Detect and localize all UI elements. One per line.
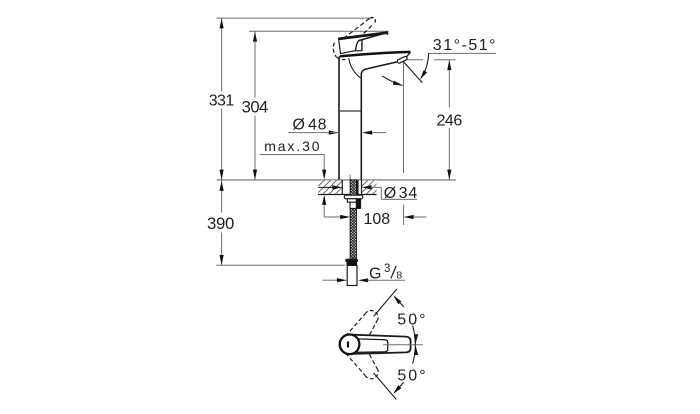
arrow 31-51 leader (418, 70, 427, 81)
dashed lever -50 cap (365, 370, 378, 379)
dashed lever -50 left edge (345, 353, 365, 375)
svg-text:246: 246 (436, 113, 462, 130)
G3/8 connector tube (347, 265, 357, 285)
outlet level line right segment (246 top tick) (434, 59, 456, 61)
dashed raised lever bottom edge (354, 24, 374, 44)
arrow 50 arc upper (413, 334, 418, 344)
deck hole right edge (361, 180, 363, 195)
arrow 331 top (220, 18, 224, 28)
arrow 331 bottom (220, 170, 224, 180)
G3/8 dim right arrow (358, 278, 368, 282)
washer step (347, 199, 360, 202)
outlet extension line down to 108 (403, 63, 405, 174)
water stream direction line (403, 62, 422, 83)
dashed raised lever tip cap (370, 17, 375, 23)
arrow 246 bottom (447, 170, 451, 180)
dimension 108 right arrow (404, 215, 414, 219)
axis tick above deck (349, 175, 351, 180)
dimension line 331 (221, 18, 223, 180)
body-spout fillet (349, 58, 361, 78)
deck hatch left (318, 180, 342, 194)
arrow max.30 down (322, 170, 326, 180)
svg-text:Ø48: Ø48 (293, 117, 328, 134)
hose end fitting body (347, 262, 358, 266)
arrow Ø48 left (329, 131, 339, 135)
lever neck right edge (361, 40, 364, 51)
flexible hose braid (350, 180, 356, 258)
arrow leader -50 (392, 385, 402, 395)
Ø34 leader drop (380, 187, 382, 199)
leader +50 (395, 297, 404, 307)
dashed raised lever bottom (336, 57, 345, 60)
arrow swing arc (393, 81, 404, 88)
countertop line (217, 179, 456, 181)
centerline (383, 344, 423, 346)
svg-text:8: 8 (396, 270, 402, 282)
svg-text:Ø34: Ø34 (384, 185, 418, 202)
dashed lever +50 right edge (369, 319, 378, 335)
top-view lever outer outline (339, 334, 410, 354)
dashed lever +50 cap (365, 310, 378, 319)
arrow leader +50 (392, 294, 402, 304)
svg-text:31°-51°: 31°-51° (433, 37, 497, 54)
radial line -50 (374, 373, 397, 400)
arrow 304 bottom (253, 170, 257, 180)
stud dark in steps (356, 199, 361, 209)
leader -50 (395, 382, 404, 392)
radial line +50 (374, 289, 397, 317)
dimension line 304 (254, 31, 256, 180)
svg-text:331: 331 (209, 93, 235, 110)
G3/8 dim left arrow (323, 279, 337, 281)
108 right extension line (403, 205, 405, 226)
deck bottom line (318, 194, 377, 196)
extension line (304 level, lever tip) (249, 30, 389, 32)
svg-text:50°: 50° (397, 368, 427, 385)
dimension Ø34 arrows (318, 186, 333, 188)
dimension line 246 (448, 60, 450, 180)
Ø34 underline (381, 198, 417, 200)
spout swing arc (382, 76, 403, 86)
arrow deck bottom up (322, 195, 326, 205)
faucet lever body (solid) (339, 32, 388, 53)
svg-text:390: 390 (207, 214, 234, 233)
leader underline 31-51 (428, 52, 496, 54)
arrow 304 top (253, 32, 257, 42)
mounting nut step (350, 202, 361, 208)
dashed raised lever front arc (350, 39, 352, 47)
svg-text:108: 108 (363, 211, 390, 228)
arrow 390 bottom (220, 255, 224, 265)
spout tip edge (406, 52, 411, 58)
arrow Ø48 right (362, 131, 372, 135)
lever underside (359, 32, 388, 40)
aerator (397, 56, 408, 64)
dimension 108 left arrow (324, 216, 340, 218)
pivot circle (340, 335, 360, 355)
faucet body top / spout top edge (340, 52, 410, 56)
faucet: dashed raised lever top edge (344, 18, 371, 39)
G3/8 underline (368, 279, 406, 281)
spout underside (361, 62, 397, 180)
bottom reference line (216, 264, 345, 266)
50 arc upper (413, 326, 416, 345)
lever tip face (387, 32, 389, 35)
deck hole left edge (341, 180, 343, 195)
svg-text:G: G (369, 265, 381, 282)
column joint line (339, 110, 361, 112)
arrow 246 top (447, 60, 451, 70)
hose end fitting lip (345, 259, 358, 262)
curved leader 31-51 (422, 53, 429, 77)
arrow 390 top (220, 181, 224, 191)
lever neck left edge (356, 41, 359, 51)
mounting stud dark bar (356, 180, 358, 194)
extension line top (331 level, raised lever tip) (216, 17, 372, 19)
max.30 leader (260, 155, 325, 171)
max.30 lower shaft (323, 205, 325, 218)
dashed lever -50 right edge (369, 354, 378, 370)
svg-text:max.30: max.30 (264, 138, 321, 154)
lever top edge thick (339, 33, 388, 39)
outlet level line left segment (406, 59, 424, 61)
top-view lever inner contour (357, 339, 388, 352)
dimension Ø48 underline (288, 132, 330, 134)
deck hatch right (362, 180, 377, 194)
dashed lever +50 left edge (345, 314, 365, 336)
dashed raised lever back (333, 43, 336, 57)
arrow 50 arc lower (413, 345, 418, 355)
svg-text:3: 3 (384, 263, 390, 275)
stabilizing flange (344, 195, 363, 199)
column left edge (339, 56, 340, 180)
dimension line 390 (221, 181, 223, 265)
pivot tick (347, 341, 349, 347)
lever neck seat (356, 50, 363, 52)
svg-text:304: 304 (242, 98, 268, 117)
50 arc lower (413, 345, 416, 364)
